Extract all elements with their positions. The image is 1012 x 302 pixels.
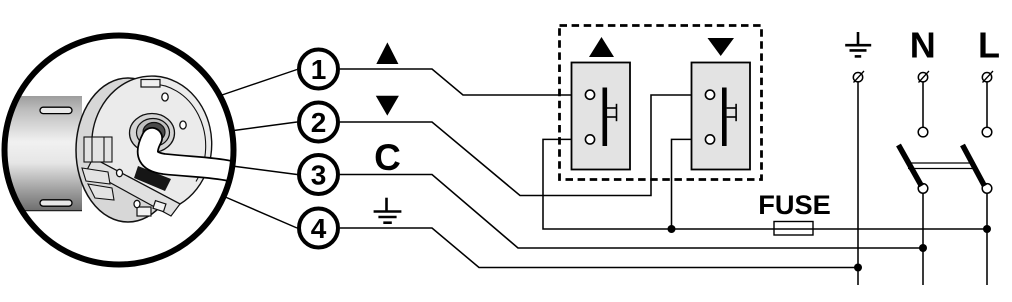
svg-text:FUSE: FUSE <box>758 189 831 220</box>
svg-text:L: L <box>978 25 1000 66</box>
svg-text:N: N <box>910 25 936 66</box>
svg-text:C: C <box>374 137 401 178</box>
svg-text:1: 1 <box>311 54 327 85</box>
svg-text:4: 4 <box>311 213 327 244</box>
svg-text:2: 2 <box>311 107 327 138</box>
svg-text:3: 3 <box>311 160 327 191</box>
